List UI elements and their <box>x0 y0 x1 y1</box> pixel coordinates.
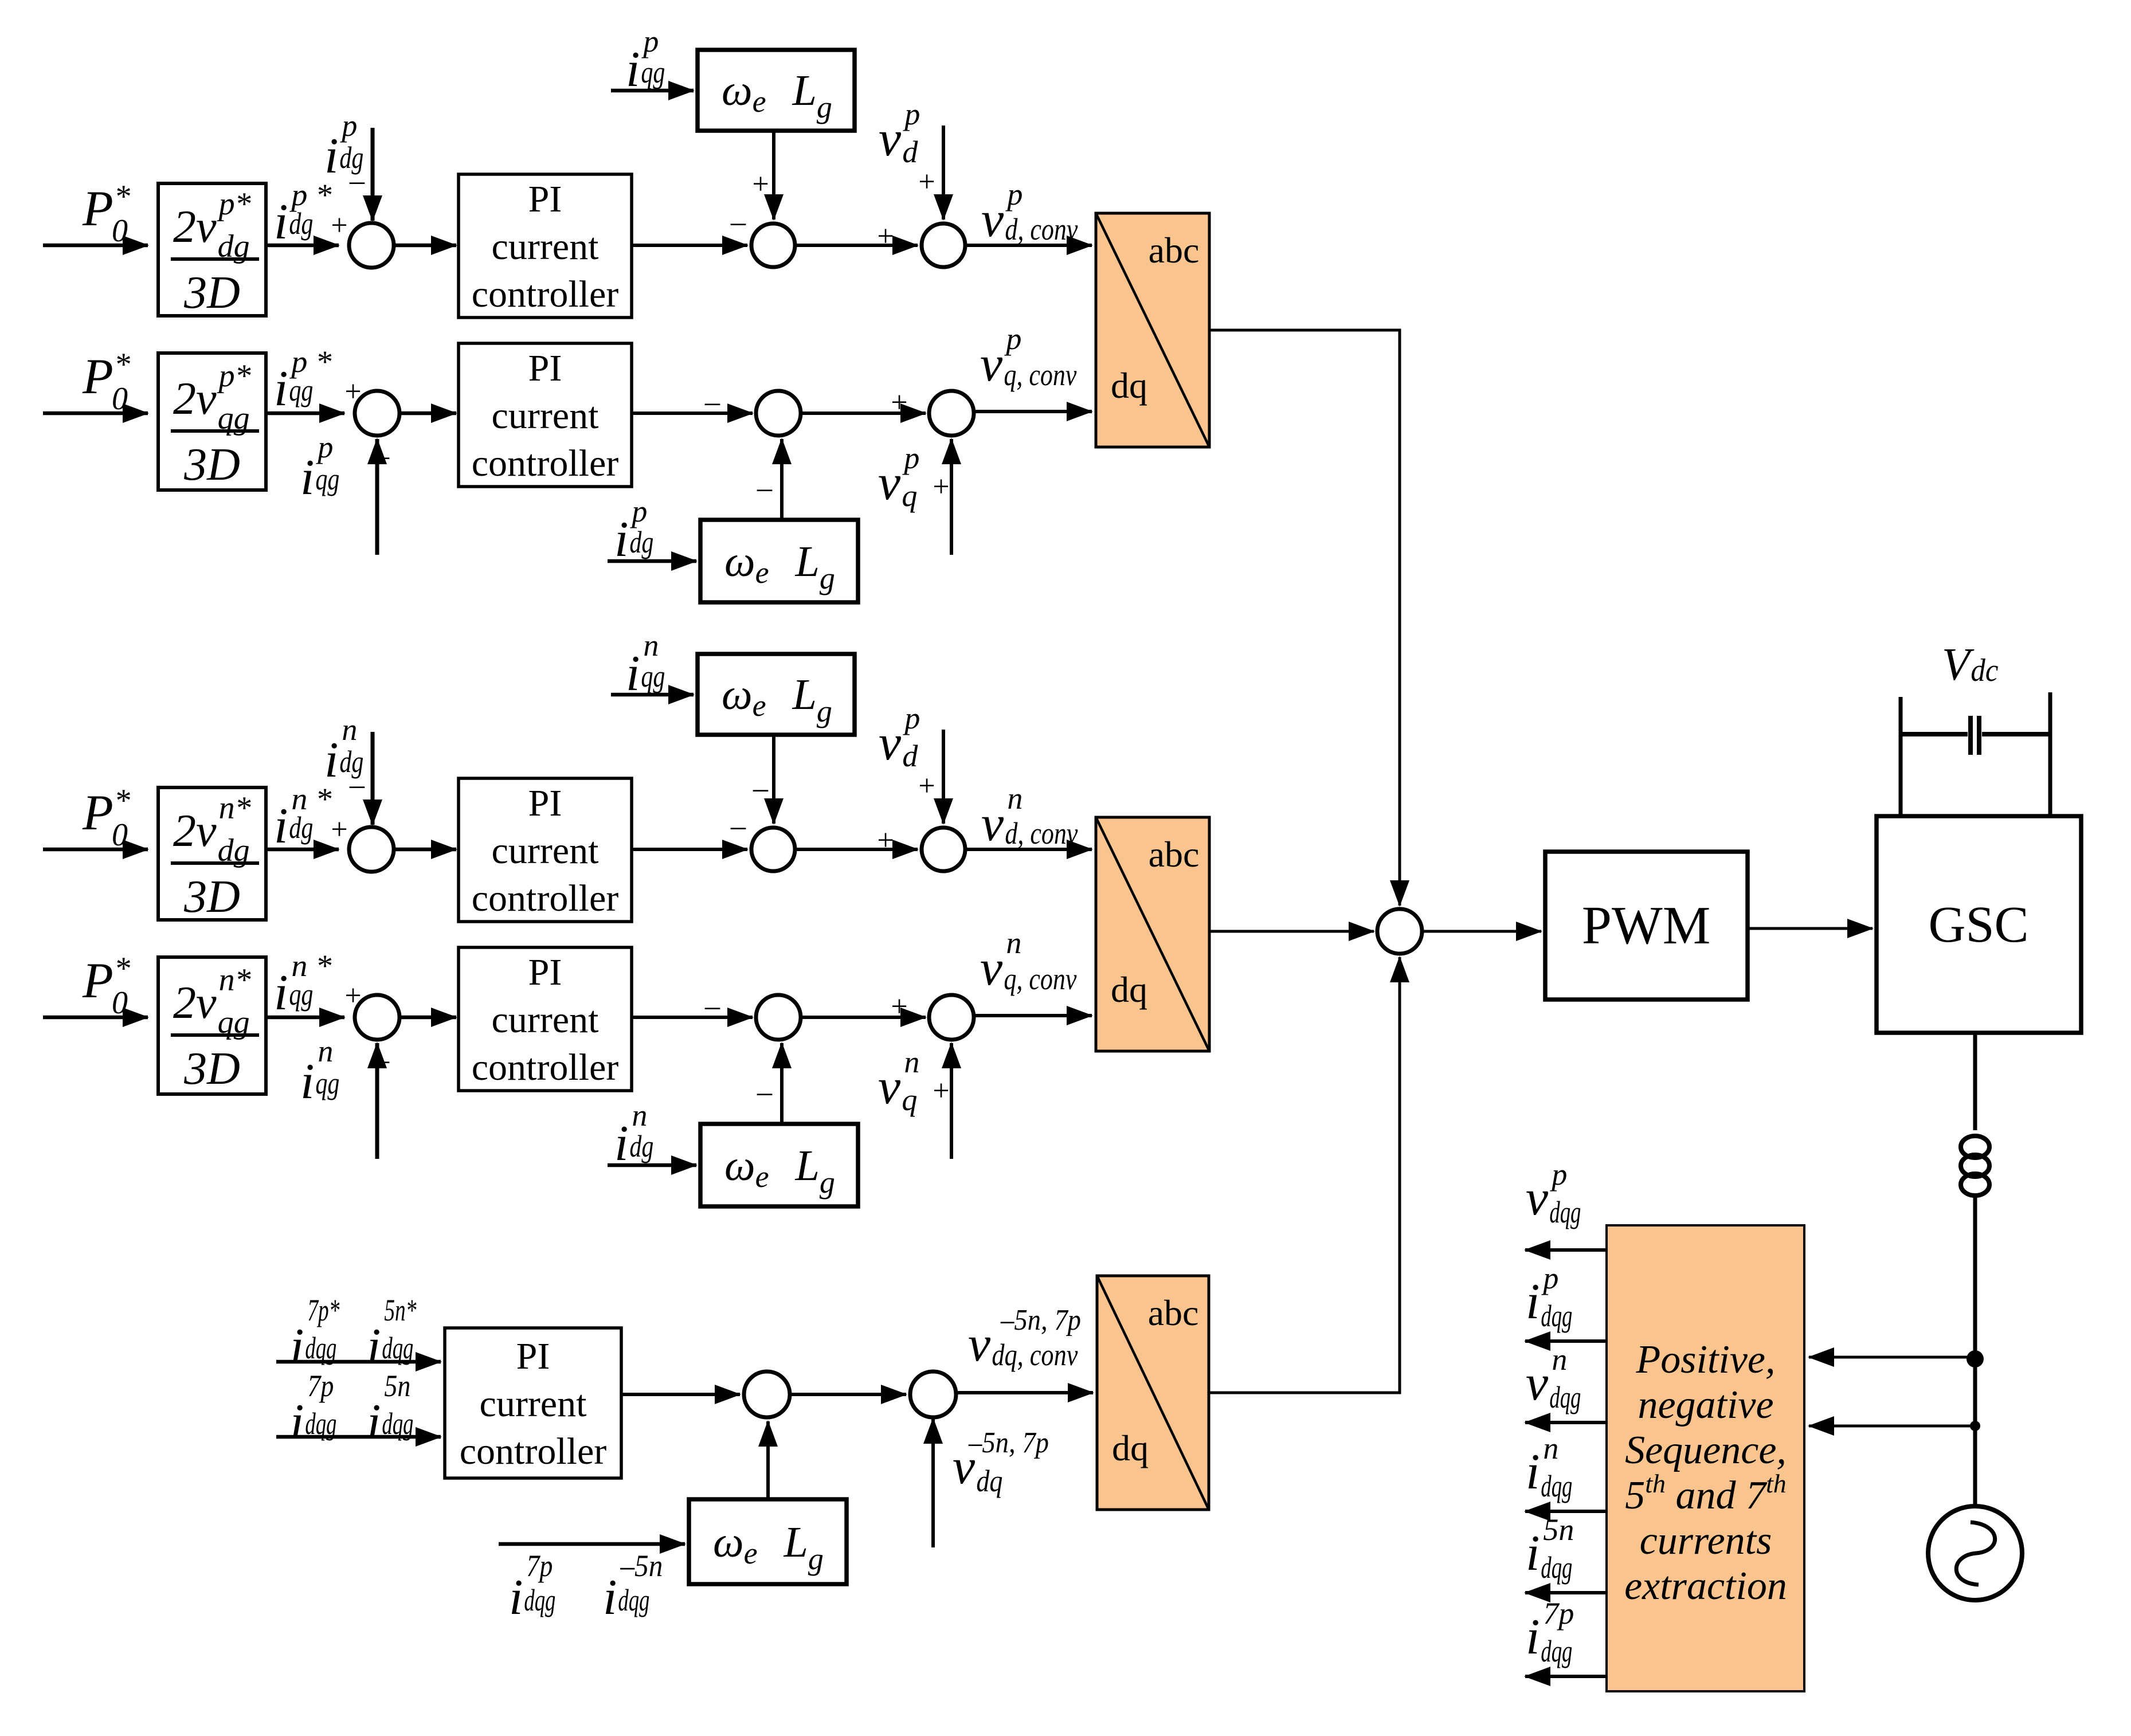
svg-text:dqg: dqg <box>1549 1380 1581 1414</box>
wire i_qg^p into omega_e L_g box <box>611 89 694 93</box>
block omega_e L_g lower (P) <box>700 520 858 602</box>
wire abc/dq harmonic to junction (up) <box>1209 957 1400 1393</box>
summing junction S6N <box>929 995 974 1040</box>
label i_dg^n feedback <box>324 712 363 788</box>
svg-text:p: p <box>902 701 920 735</box>
wire S2P to sum S3P <box>794 244 918 247</box>
label v_q,conv^p output <box>980 322 1076 392</box>
wire S3N to abc/dq block <box>965 848 1092 851</box>
svg-text:+: + <box>877 824 894 857</box>
svg-text:dqg: dqg <box>524 1583 555 1617</box>
block PI current controller (P d-axis) <box>459 174 632 318</box>
wire i_dg^n into lower omega_e L_g box <box>608 1163 696 1167</box>
wire PI to sum S5N <box>632 1016 753 1019</box>
svg-text:–: – <box>704 990 720 1022</box>
svg-text:current: current <box>492 395 599 437</box>
svg-text:dqg: dqg <box>1541 1550 1572 1585</box>
svg-text:p: p <box>315 430 333 464</box>
wire S5N to sum S6N <box>801 1016 926 1019</box>
label v_dqg^p extraction output <box>1526 1157 1581 1229</box>
wire v_d down into S3P <box>942 126 945 220</box>
node P0* reference input (P q-axis) <box>82 347 130 417</box>
svg-text:+: + <box>891 386 907 419</box>
block omega_e L_g upper (N) <box>698 654 855 735</box>
label v_q^n feedforward (N) <box>878 1045 919 1117</box>
svg-text:v: v <box>878 1059 901 1115</box>
svg-text:n: n <box>318 1034 333 1068</box>
label i_dqg^5n extraction output <box>1526 1512 1574 1585</box>
svg-text:dq: dq <box>1111 969 1147 1010</box>
wire S6N to abc/dq block <box>974 1014 1092 1017</box>
summing junction S3P <box>922 224 965 267</box>
block 2vqg^n*/3D (N q-axis) <box>158 957 266 1094</box>
svg-text:q, conv: q, conv <box>1004 962 1076 996</box>
label i_dqg^7p extraction output <box>1526 1596 1574 1668</box>
svg-text:7p: 7p <box>307 1369 334 1403</box>
svg-text:q, conv: q, conv <box>1004 358 1076 392</box>
svg-text:v: v <box>981 796 1004 852</box>
svg-text:0: 0 <box>112 213 128 249</box>
label v_q^p feedforward (P) <box>878 441 919 513</box>
svg-text:dqg: dqg <box>1541 1469 1572 1503</box>
svg-text:n: n <box>632 1098 647 1132</box>
svg-text:–: – <box>753 772 769 805</box>
svg-text:P: P <box>82 349 113 405</box>
label + at sum S1P <box>331 209 347 242</box>
svg-text:abc: abc <box>1148 1292 1199 1333</box>
svg-text:current: current <box>492 999 599 1041</box>
svg-text:q: q <box>902 479 917 513</box>
summing junction S6P <box>929 391 974 436</box>
label + before S3P <box>877 220 894 253</box>
svg-text:i: i <box>1526 1609 1540 1665</box>
label + at v_d feed (N) <box>918 770 935 802</box>
svg-text:+: + <box>918 770 935 802</box>
wire 2v/3D to sum S1N <box>266 848 339 852</box>
summing junction S5P <box>756 391 801 436</box>
svg-text:n: n <box>1006 926 1021 960</box>
block PI current controller (P q-axis) <box>459 343 632 487</box>
label i_dg^n * reference <box>274 782 331 854</box>
svg-text:–5n, 7p: –5n, 7p <box>1000 1304 1081 1337</box>
wire DC link left lead <box>1899 697 1903 816</box>
svg-text:P: P <box>82 953 113 1009</box>
svg-text:PI: PI <box>528 347 562 389</box>
svg-text:n: n <box>342 712 357 747</box>
svg-text:i: i <box>290 1394 304 1450</box>
wire into omega_e L_g (harmonic) <box>499 1542 685 1546</box>
svg-text:qg: qg <box>289 977 313 1012</box>
label i_dqg^p extraction output <box>1526 1261 1572 1333</box>
label i_dqg^-5n under harmonic wire <box>603 1549 663 1625</box>
block omega_e L_g lower (N) <box>700 1124 858 1206</box>
summing junction S3N <box>922 828 965 871</box>
label V_dc <box>1942 640 1999 690</box>
svg-text:controller: controller <box>472 877 619 919</box>
wire PWM to GSC <box>1748 927 1873 930</box>
label i_qg^n feedback <box>300 1034 339 1110</box>
svg-text:*: * <box>114 783 130 818</box>
label i_qg^n into omega_e L_g <box>626 628 665 702</box>
svg-text:current: current <box>492 226 599 268</box>
node P0* reference input (N d-axis) <box>82 783 130 853</box>
wire extraction output i_dqg^5n <box>1525 1591 1607 1594</box>
svg-text:PI: PI <box>516 1335 550 1377</box>
svg-text:p: p <box>1541 1261 1558 1295</box>
svg-text:qg: qg <box>289 373 313 407</box>
wire i_dg^p into lower omega_e L_g box <box>608 559 696 563</box>
svg-text:n: n <box>1007 781 1023 816</box>
block abc/dq transform (N) <box>1096 817 1209 1051</box>
label + before S6N <box>891 990 907 1023</box>
svg-text:+: + <box>752 168 769 201</box>
svg-text:5n*: 5n* <box>384 1293 416 1327</box>
label v_d^p feedforward (P) <box>879 97 920 169</box>
label - at S5N left <box>704 990 720 1022</box>
svg-text:dg: dg <box>289 810 313 845</box>
svg-text:PI: PI <box>528 178 562 220</box>
inductor L_g (grid filter) <box>1961 1136 1989 1196</box>
wire abc/dq N to junction (left input) <box>1208 930 1374 933</box>
summing junction before PWM <box>1377 909 1422 954</box>
wire GSC to inductor <box>1973 1033 1977 1130</box>
svg-text:qg: qg <box>315 462 339 496</box>
block abc/dq transform (harmonic) <box>1097 1276 1209 1510</box>
wire S3P to abc/dq block <box>965 244 1092 247</box>
label - at S2N left <box>730 810 746 842</box>
label + at S2P feed <box>752 168 769 201</box>
wire PI to sum S2P <box>632 244 747 247</box>
wire voltage tap to extraction block <box>1809 1356 1975 1359</box>
svg-text:v: v <box>878 455 901 511</box>
wire v_q up into S6N <box>950 1043 953 1159</box>
wire omega_e L_g up into S5N <box>780 1043 784 1124</box>
svg-text:+: + <box>331 209 347 242</box>
svg-text:currents: currents <box>1640 1519 1772 1563</box>
wire v_dq up into SB <box>931 1418 935 1547</box>
label i_qg^p feedback <box>300 430 339 505</box>
svg-text:i: i <box>614 512 628 567</box>
svg-text:–: – <box>730 810 746 842</box>
wire 2v/3D to sum S4N <box>266 1016 344 1020</box>
label - at S5P feed <box>757 472 773 504</box>
svg-text:*: * <box>114 951 130 986</box>
svg-text:3D: 3D <box>183 440 240 490</box>
label + before S3N <box>877 824 894 857</box>
svg-text:qg: qg <box>315 1066 339 1100</box>
svg-text:controller: controller <box>472 1047 619 1088</box>
svg-text:–: – <box>349 164 365 197</box>
svg-text:dq: dq <box>1111 365 1147 406</box>
svg-text:+: + <box>891 990 907 1023</box>
label i_dqg^7p under harmonic wire <box>509 1549 555 1625</box>
svg-text:PWM: PWM <box>1582 896 1711 955</box>
svg-text:5n: 5n <box>384 1369 410 1403</box>
svg-text:qg: qg <box>641 55 665 89</box>
wire P0* into 2v/3D block (N d-axis) <box>43 848 148 852</box>
svg-text:*: * <box>114 179 130 214</box>
svg-text:i: i <box>367 1319 381 1374</box>
svg-text:dq: dq <box>976 1464 1002 1498</box>
svg-text:–: – <box>757 472 773 504</box>
svg-text:–: – <box>730 206 746 238</box>
block 2vdg^p*/3D (P d-axis) <box>158 183 266 318</box>
svg-text:p: p <box>1549 1157 1567 1192</box>
wire S5P to sum S6P <box>801 412 926 415</box>
svg-text:i: i <box>1526 1274 1540 1330</box>
svg-text:7p*: 7p* <box>307 1293 339 1327</box>
wire v_q up into S6P <box>950 439 953 555</box>
label i_dqg^5n* reference <box>367 1293 416 1374</box>
label v_dqg^n extraction output <box>1526 1342 1581 1414</box>
svg-text:–: – <box>704 386 720 418</box>
capacitor C_dc <box>1901 716 2050 755</box>
svg-text:n: n <box>1543 1431 1558 1465</box>
label i_dg^p into lower omega_e L_g <box>614 494 653 567</box>
svg-text:i: i <box>324 128 338 184</box>
svg-text:GSC: GSC <box>1928 896 2028 953</box>
svg-text:abc: abc <box>1149 834 1200 875</box>
svg-text:d, conv: d, conv <box>1005 212 1078 246</box>
svg-text:Sequence,: Sequence, <box>1625 1428 1787 1472</box>
svg-text:v: v <box>981 192 1004 248</box>
svg-text:+: + <box>918 166 935 198</box>
wire S4P to PI controller <box>399 412 456 416</box>
svg-text:current: current <box>492 830 599 872</box>
label &#8211; at S2N feed <box>753 772 769 805</box>
label + at sum S1N <box>331 813 347 846</box>
svg-text:5n: 5n <box>1543 1512 1574 1547</box>
svg-text:PI: PI <box>528 782 562 824</box>
label + at v_q feed (P) <box>933 471 949 503</box>
svg-text:*: * <box>114 347 130 382</box>
block PI current controller (N q-axis) <box>459 947 632 1091</box>
svg-text:dc: dc <box>1971 653 1998 688</box>
label i_dqg^7p* reference <box>290 1293 339 1374</box>
wire 2v/3D to sum S4P <box>266 412 344 416</box>
block PWM <box>1545 852 1748 1000</box>
summing junction SA (harmonic) <box>744 1371 790 1417</box>
svg-text:negative: negative <box>1638 1383 1773 1427</box>
label v_d^p feedforward (N) <box>879 701 920 773</box>
summing junction S1P <box>349 223 394 268</box>
svg-text:i: i <box>300 450 314 505</box>
label - at S5N feed <box>757 1076 773 1108</box>
wire omega_e L_g down into S2N <box>772 735 775 824</box>
svg-text:p: p <box>1004 322 1021 356</box>
summing junction S4N <box>355 995 399 1040</box>
svg-text:p: p <box>629 494 647 528</box>
svg-text:dqg: dqg <box>1549 1195 1581 1229</box>
wire current tap to extraction block <box>1809 1425 1975 1428</box>
svg-text:i: i <box>1526 1444 1540 1500</box>
label - at S1N top <box>349 769 365 801</box>
label v_q,conv^n output <box>980 926 1076 996</box>
svg-text:0: 0 <box>112 985 128 1021</box>
svg-text:controller: controller <box>460 1431 607 1472</box>
wire i_qg^n up into S4N <box>375 1043 379 1159</box>
label i_dg^n into lower omega_e L_g <box>614 1098 653 1171</box>
svg-text:P: P <box>82 181 113 237</box>
svg-text:v: v <box>879 111 902 167</box>
wire abc/dq P to junction (down) <box>1209 330 1400 906</box>
svg-text:abc: abc <box>1149 230 1200 271</box>
svg-text:3D: 3D <box>183 1044 240 1094</box>
wire P0* into 2v/3D block (P d-axis) <box>43 244 148 248</box>
svg-text:d: d <box>902 135 918 169</box>
svg-text:v: v <box>879 715 902 771</box>
label - at S1P top <box>349 164 365 197</box>
svg-text:dg: dg <box>289 206 313 241</box>
svg-text:i: i <box>274 798 288 854</box>
svg-text:v: v <box>980 336 1003 392</box>
block omega_e L_g (harmonic) <box>689 1499 847 1584</box>
svg-text:dq, conv: dq, conv <box>992 1338 1078 1372</box>
svg-text:–: – <box>757 1076 773 1108</box>
svg-text:i: i <box>324 732 338 788</box>
label + before S6P <box>891 386 907 419</box>
wire DC link right lead <box>2048 692 2052 816</box>
wire extraction output v_dqg^n <box>1525 1421 1607 1424</box>
svg-text:3D: 3D <box>183 268 240 318</box>
node current tap (filled dot) <box>1970 1421 1980 1431</box>
label i_dqg^n extraction output <box>1526 1431 1572 1503</box>
node voltage tap (filled dot) <box>1967 1350 1984 1367</box>
block PI current controller (harmonic) <box>445 1328 621 1478</box>
svg-text:+: + <box>877 220 894 253</box>
svg-text:7p: 7p <box>1543 1596 1574 1631</box>
svg-text:+: + <box>933 471 949 503</box>
wire inductor to grid source <box>1973 1196 1977 1507</box>
wire extraction output i_dqg^p <box>1525 1339 1607 1343</box>
svg-text:–: – <box>349 769 365 801</box>
svg-text:dqg: dqg <box>618 1583 649 1617</box>
svg-text:dq: dq <box>1112 1428 1149 1468</box>
svg-text:i: i <box>290 1319 304 1374</box>
summing junction S2N <box>751 828 795 871</box>
wire S1N to PI controller <box>394 848 456 852</box>
summing junction S4P <box>355 391 399 436</box>
svg-text:v: v <box>1526 1170 1549 1226</box>
wire i_qg^p up into S4P <box>375 439 379 555</box>
label v_dq,conv^-5n,7p output <box>968 1304 1081 1372</box>
label + at sum S4N <box>344 979 361 1012</box>
label i_dg^p feedback <box>324 108 363 184</box>
wire PI to sum SA <box>621 1393 740 1396</box>
svg-text:i: i <box>1526 1526 1540 1581</box>
block PI current controller (N d-axis) <box>459 778 632 922</box>
svg-text:i: i <box>274 361 288 417</box>
wire junction to PWM <box>1422 930 1541 933</box>
svg-text:i: i <box>274 194 288 250</box>
label - at S4P bottom <box>374 440 390 472</box>
svg-text:extraction: extraction <box>1624 1564 1787 1608</box>
svg-text:i: i <box>274 965 288 1021</box>
label - at S4N bottom <box>374 1044 390 1076</box>
svg-text:–5n: –5n <box>620 1549 663 1583</box>
svg-text:dqg: dqg <box>1541 1299 1572 1333</box>
wire 2v/3D to sum S1P <box>266 244 339 248</box>
svg-text:PI: PI <box>528 951 562 993</box>
svg-text:i: i <box>300 1054 314 1110</box>
label + at sum S4P <box>344 375 361 408</box>
label + at v_d feed (P) <box>918 166 935 198</box>
svg-text:i: i <box>603 1570 617 1625</box>
svg-text:i: i <box>367 1394 381 1450</box>
svg-text:n: n <box>904 1045 919 1079</box>
block positive/negative/5th/7th currents extraction <box>1607 1225 1804 1691</box>
svg-text:d: d <box>902 739 918 773</box>
svg-text:dqg: dqg <box>1541 1634 1572 1668</box>
svg-text:p: p <box>1005 177 1023 211</box>
wire PI to sum S2N <box>632 848 747 851</box>
label v_dq^-5n,7p feed <box>953 1427 1049 1498</box>
svg-text:v: v <box>1526 1355 1549 1411</box>
wire i_qg^n into omega_e L_g box <box>611 693 694 697</box>
svg-text:–5n, 7p: –5n, 7p <box>968 1427 1049 1459</box>
label v_d,conv^p output <box>981 177 1078 248</box>
label i_dqg^5n feedback <box>367 1369 413 1450</box>
svg-text:0: 0 <box>112 817 128 853</box>
svg-text:v: v <box>980 941 1003 996</box>
svg-text:P: P <box>82 785 113 841</box>
block 2vqg^p*/3D (P q-axis) <box>158 353 266 490</box>
wire SB to abc/dq (harmonic) <box>956 1391 1093 1394</box>
svg-text:qg: qg <box>641 659 665 693</box>
svg-text:i: i <box>614 1116 628 1171</box>
svg-text:p: p <box>339 108 357 143</box>
label i_dg^p * reference <box>274 178 331 250</box>
svg-text:current: current <box>480 1383 587 1425</box>
label i_dqg^7p feedback <box>290 1369 336 1450</box>
wire v_d down into S3N <box>942 730 945 824</box>
label - at S2P left <box>730 206 746 238</box>
block GSC converter <box>1877 816 2081 1033</box>
wire harmonic reference into PI <box>276 1360 441 1364</box>
svg-text:i: i <box>509 1570 523 1625</box>
wire PI to sum S5P <box>632 412 753 415</box>
svg-text:+: + <box>933 1075 949 1107</box>
summing junction SB (harmonic) <box>910 1371 956 1417</box>
wire S1P to PI controller <box>394 244 456 248</box>
svg-text:7p: 7p <box>526 1549 553 1583</box>
wire omega_e L_g up into SA <box>766 1421 770 1499</box>
svg-text:n: n <box>643 628 659 663</box>
wire S4N to PI controller <box>399 1016 456 1020</box>
svg-text:0: 0 <box>112 381 128 417</box>
wire omega_e L_g down into S2P <box>772 131 775 220</box>
summing junction S5N <box>756 995 801 1040</box>
label i_qg^p * reference <box>274 344 331 417</box>
label i_qg^p into omega_e L_g <box>626 24 665 97</box>
svg-text:p: p <box>902 441 919 475</box>
svg-text:V: V <box>1942 640 1975 690</box>
wire P0* into 2v/3D block (N q-axis) <box>43 1016 148 1020</box>
wire S6P to abc/dq block <box>974 410 1092 413</box>
label i_qg^n * reference <box>274 949 331 1021</box>
label + at v_q feed (N) <box>933 1075 949 1107</box>
node P0* reference input (P d-axis) <box>82 179 130 249</box>
block abc/dq transform (P) <box>1096 213 1209 447</box>
summing junction S2P <box>751 224 795 267</box>
wire extraction output i_dqg^7p <box>1525 1675 1607 1678</box>
wire S2N to sum S3N <box>794 848 918 851</box>
label - at S5P left <box>704 386 720 418</box>
svg-text:3D: 3D <box>183 872 240 922</box>
svg-text:n: n <box>1552 1342 1567 1377</box>
wire i_dg^p down into S1P <box>371 128 375 221</box>
block 2vdg^n*/3D (N d-axis) <box>158 787 266 922</box>
